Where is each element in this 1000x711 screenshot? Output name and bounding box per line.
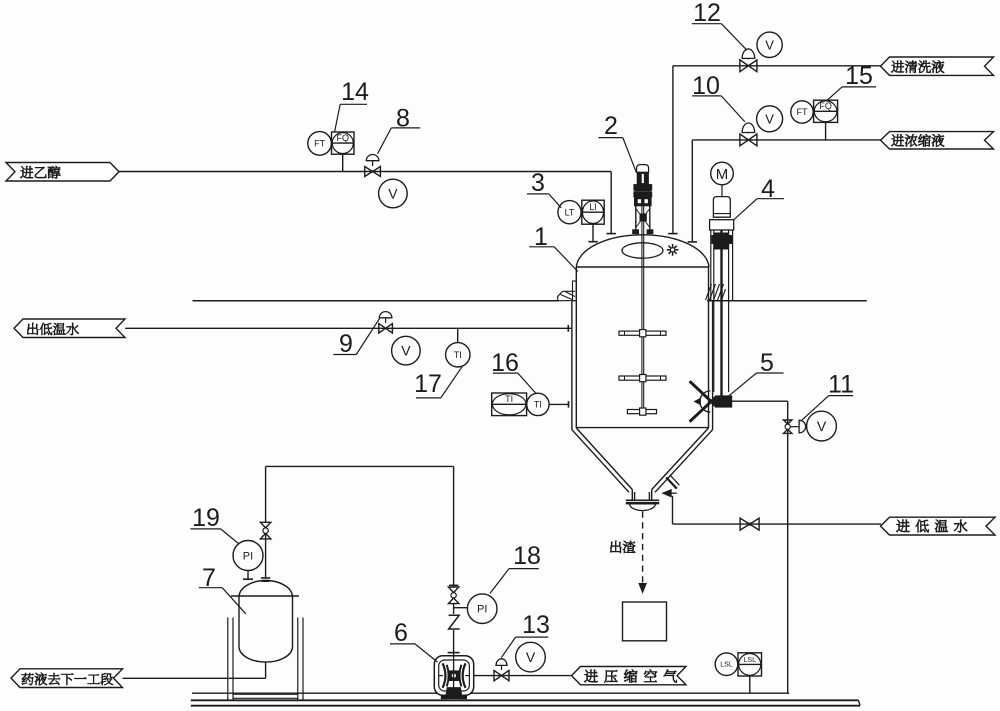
svg-text:TI: TI: [454, 350, 462, 360]
svg-text:FT: FT: [797, 107, 808, 117]
instrument FQ of 14: [332, 132, 355, 154]
tank 1 bottom weld line: [576, 427, 708, 429]
tank 1 cone jacket outer: [572, 430, 629, 493]
side agitator tip arrow: [695, 398, 701, 404]
pump 6 shaft through: [453, 652, 455, 688]
flange marks on vessel 7 nozzle: [261, 577, 270, 579]
instrument TI 17: [446, 343, 470, 367]
wire chilled-water outlet line: [125, 327, 572, 329]
wire FQ14 to line: [342, 154, 344, 171]
svg-text:PI: PI: [477, 604, 487, 616]
svg-text:FQ: FQ: [819, 101, 832, 111]
valve on chilled-water inlet: [740, 518, 750, 530]
instrument FT of 15: [791, 101, 813, 123]
valve 13 control: [494, 670, 502, 680]
valve 9 control: [379, 324, 386, 333]
svg-text:V: V: [401, 343, 411, 359]
svg-text:V: V: [526, 649, 536, 665]
vessel 7 leg brace: [233, 693, 298, 695]
instrument LSL circle: [715, 653, 738, 676]
svg-text:17: 17: [414, 370, 442, 398]
pump 6 diaphragm right: [463, 663, 466, 687]
vessel 7 dome head: [239, 581, 293, 596]
valve 10 control: [740, 134, 749, 146]
svg-text:V: V: [817, 418, 827, 434]
agitator motor cap: [637, 165, 649, 173]
svg-text:3: 3: [531, 169, 545, 197]
agitator stand legs: [635, 206, 637, 232]
ground slab: [191, 699, 859, 701]
instrument FQ of 15: [814, 100, 838, 122]
pump 6 internal line stubs: [439, 675, 443, 677]
motor M circle: [711, 162, 734, 185]
side agitator blades: [690, 381, 716, 406]
vessel 7 support legs: [227, 618, 229, 701]
svg-text:FT: FT: [314, 139, 325, 149]
wire recirculation riser from vessel 7: [265, 466, 267, 522]
pump 6 center block: [448, 671, 459, 681]
svg-text:LSL: LSL: [720, 662, 733, 669]
instrument LSL square: [738, 653, 762, 676]
platform line right: [707, 300, 867, 302]
lift cylinder: [713, 197, 730, 218]
instrument FT of 14: [308, 132, 332, 156]
paddle level 2: [619, 376, 666, 380]
tank 1 cone inner: [576, 428, 632, 490]
wire chilled-water riser to jacket nozzle: [672, 496, 674, 524]
tank 1 outlet dish cap: [630, 504, 656, 511]
tank support bracket left: [573, 281, 577, 301]
instrument TI square of 16: [492, 393, 527, 416]
wire PI18 to pipe: [454, 607, 468, 609]
wire product line from vessel 7: [123, 677, 266, 679]
svg-text:TI: TI: [505, 394, 513, 404]
motor M stem: [721, 185, 723, 197]
wire TI17 to line: [457, 328, 459, 342]
agitator gearbox band: [634, 185, 652, 190]
flag wash-liquid inlet: [881, 57, 994, 75]
valve 12 control: [740, 60, 749, 72]
valve 8 control: [365, 167, 373, 177]
svg-text:M: M: [716, 166, 729, 183]
agitator motor body: [637, 172, 648, 184]
wire concentrate line: [692, 139, 881, 141]
side agitator hub: [715, 396, 731, 407]
wire FQ15 to line: [825, 122, 827, 139]
pump 6 diaphragm left: [443, 663, 446, 687]
instrument V of 9: [392, 336, 421, 365]
agitator stand hub: [640, 214, 646, 221]
jacket nozzle stub on cone: [666, 477, 677, 488]
paddle level 1: [619, 331, 666, 335]
svg-text:V: V: [388, 186, 398, 202]
instrument V of 12: [757, 32, 782, 57]
instrument V of 11: [807, 411, 837, 441]
paddle level 3: [627, 410, 656, 414]
wire PI19 to vessel 7: [247, 571, 249, 579]
vessel 7 shell: [238, 596, 240, 648]
agitator shaft: [641, 206, 643, 412]
svg-text:9: 9: [339, 330, 353, 358]
wire wash-liquid line: [673, 65, 881, 67]
agitator stand feet: [633, 230, 639, 234]
flag product to next stage: [11, 669, 123, 688]
lift guide rails outer: [710, 230, 712, 301]
flag chilled-water inlet: [881, 517, 996, 535]
pump 6 casing: [434, 656, 473, 696]
svg-text:FQ: FQ: [337, 133, 350, 143]
wire TI16 to tank wall: [549, 403, 569, 405]
pump suction flange tick: [448, 652, 460, 654]
tank 1 jacket outer walls: [571, 302, 573, 430]
svg-text:2: 2: [604, 112, 618, 140]
pump 6 base: [445, 688, 462, 699]
lift shaft: [720, 230, 722, 396]
svg-text:LI: LI: [589, 202, 597, 212]
svg-text:18: 18: [513, 542, 541, 570]
agitator seal housing: [635, 197, 652, 206]
valve 11 actuator: [790, 426, 799, 428]
vessel 7 bottom head: [239, 648, 293, 663]
instrument PI 19: [233, 541, 263, 571]
tank 1 outlet neck: [631, 490, 633, 500]
instrument V of 13: [516, 642, 546, 672]
tank 1 outlet flange: [626, 499, 659, 501]
wire ethanol feed line: [119, 171, 611, 173]
slag container box: [623, 602, 667, 641]
platform line left: [193, 300, 560, 302]
lift guide rails inner: [713, 230, 715, 392]
flag concentrate inlet: [881, 132, 994, 149]
ground line upper: [192, 692, 789, 694]
slag label: [610, 541, 621, 553]
svg-text:15: 15: [845, 62, 873, 90]
svg-text:PI: PI: [243, 550, 253, 562]
tank 1 shell walls: [575, 267, 577, 428]
wire recirculation top run: [266, 465, 454, 467]
flag ethanol inlet: [6, 163, 119, 182]
instrument PI 18: [467, 594, 497, 624]
svg-text:19: 19: [192, 504, 220, 532]
valve above pump 6: [448, 587, 458, 593]
wire LSL to ground line: [749, 676, 751, 693]
instrument V of 8: [379, 179, 408, 208]
tank 1 head weld line: [576, 266, 709, 268]
svg-text:TI: TI: [534, 400, 542, 410]
wire wash-liquid drop to spray ball: [672, 66, 674, 233]
svg-text:LT: LT: [565, 207, 575, 217]
valve 11 body: [784, 420, 792, 424]
flag chilled-water outlet: [14, 319, 125, 338]
wire drain riser down from valve 11: [787, 401, 789, 693]
flag compressed-air inlet: [572, 667, 687, 685]
wire recirculation drop to pump: [453, 466, 455, 587]
jacket inlet flow arrow: [663, 490, 672, 497]
side agitator circle: [700, 391, 711, 412]
wire vessel 7 bottom outlet: [265, 663, 267, 679]
wire side-agitator to valve 11: [732, 400, 788, 402]
slag dashed arrow: [642, 512, 644, 584]
instrument TI circle of 16: [527, 393, 549, 415]
instrument LT of 3: [558, 201, 581, 224]
wire concentrate drop into tank top: [691, 140, 693, 242]
wire LI3 to tank dome: [592, 224, 594, 241]
lift mounting block: [710, 220, 734, 230]
wire ethanol drop into tank top: [610, 172, 612, 234]
vessel 7 top flange line: [231, 595, 299, 597]
manhole ellipse on dome: [622, 243, 663, 258]
svg-text:V: V: [765, 111, 774, 126]
tank support hatch right: [706, 284, 712, 300]
wire chilled-water inlet line: [673, 523, 882, 525]
lift clamp: [715, 233, 729, 249]
svg-text:14: 14: [341, 78, 369, 106]
svg-text:13: 13: [522, 611, 550, 639]
svg-text:12: 12: [693, 0, 721, 27]
valve on vessel 7 riser: [260, 522, 270, 528]
svg-text:V: V: [765, 37, 774, 52]
instrument V of 10: [757, 106, 783, 132]
svg-text:6: 6: [394, 619, 408, 647]
wire compressed-air line: [474, 675, 572, 677]
flexible joint Z symbol: [449, 615, 460, 629]
svg-text:11: 11: [828, 371, 854, 399]
spray ball star: [667, 249, 679, 251]
instrument LI of 3: [582, 200, 604, 224]
svg-text:LSL: LSL: [744, 657, 757, 664]
tank 1 dome head: [576, 235, 709, 267]
